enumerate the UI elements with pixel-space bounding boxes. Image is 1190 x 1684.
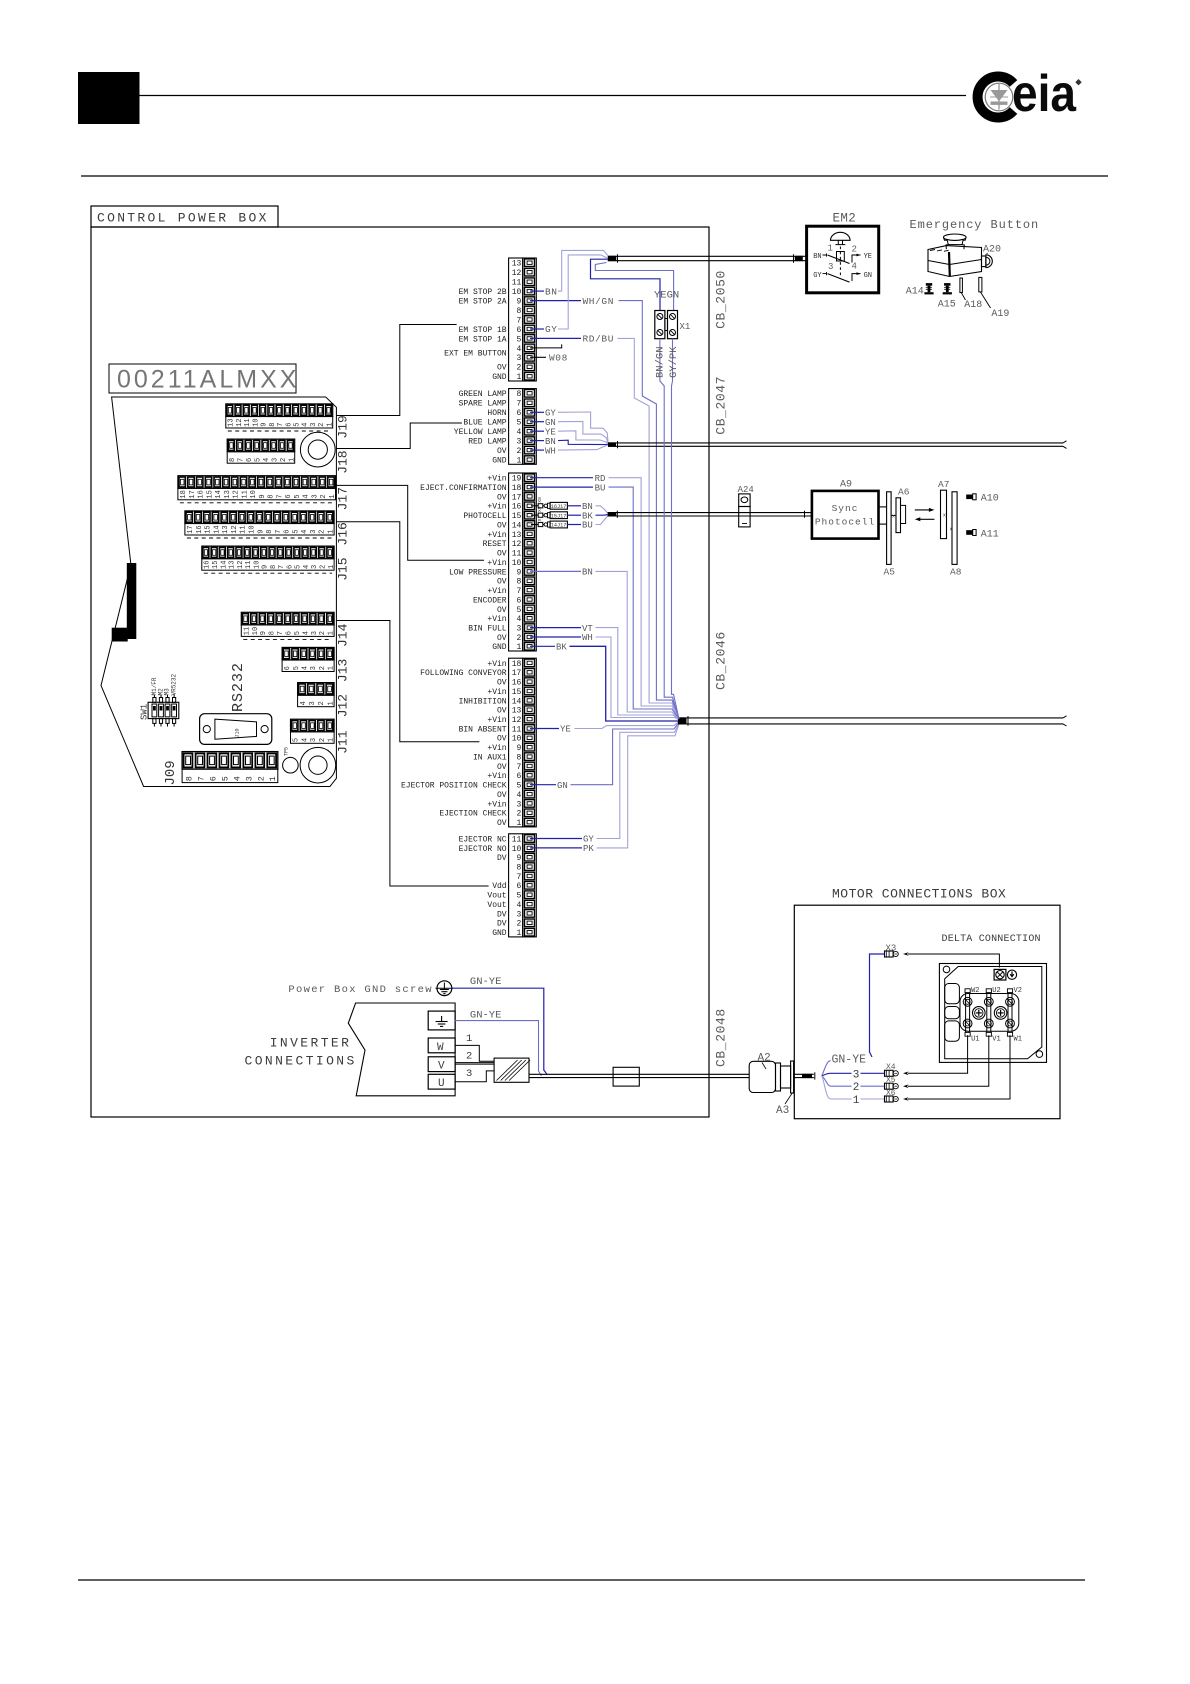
svg-text:1: 1	[268, 776, 278, 781]
svg-text:6: 6	[285, 494, 293, 498]
svg-text:J12: J12	[336, 694, 351, 717]
svg-text:6: 6	[516, 772, 521, 781]
cable end in motor box	[794, 1072, 815, 1079]
svg-text:11: 11	[245, 561, 253, 569]
svg-text:W08: W08	[549, 353, 568, 364]
cable gland A2	[749, 1052, 793, 1093]
svg-text:7: 7	[516, 873, 521, 882]
DIP switch SW1	[140, 695, 179, 727]
svg-text:BU: BU	[582, 521, 593, 531]
svg-text:11: 11	[512, 725, 522, 734]
svg-text:INVERTER: INVERTER	[270, 1036, 352, 1051]
svg-text:CONTROL POWER BOX: CONTROL POWER BOX	[97, 211, 269, 226]
svg-text:10: 10	[249, 525, 257, 533]
wire GN-YE from inverter GND terminal	[455, 1010, 541, 1076]
svg-text:2: 2	[516, 364, 521, 373]
svg-text:WH/GN: WH/GN	[583, 296, 615, 307]
connector J17	[178, 476, 351, 511]
wire GN-YE to X3	[870, 954, 885, 1057]
svg-text:16: 16	[204, 561, 212, 569]
svg-text:2: 2	[318, 423, 326, 427]
svg-text:MOTOR CONNECTIONS BOX: MOTOR CONNECTIONS BOX	[832, 887, 1006, 902]
svg-text:V2: V2	[1014, 987, 1022, 995]
ferrite bead on motor cable	[613, 1067, 639, 1086]
svg-text:DV: DV	[497, 854, 507, 863]
svg-text:W2: W2	[971, 987, 979, 995]
svg-text:J09: J09	[163, 760, 179, 785]
card edge connector	[112, 563, 137, 642]
svg-text:OV: OV	[497, 447, 507, 456]
terminal X3	[885, 943, 899, 957]
alignment arrows	[915, 508, 935, 521]
svg-text:12: 12	[512, 269, 522, 278]
svg-text:GND: GND	[492, 373, 507, 382]
svg-text:6: 6	[285, 423, 293, 427]
svg-text:17: 17	[187, 525, 195, 533]
svg-text:11: 11	[244, 418, 252, 426]
connector J15	[202, 546, 351, 581]
svg-text:J17: J17	[336, 487, 351, 510]
strip X17 (inputs) labels	[420, 475, 507, 653]
wire fan GN-YE 3 2 1	[822, 1054, 885, 1108]
svg-text:6: 6	[516, 409, 521, 418]
svg-text:A6: A6	[898, 487, 910, 498]
svg-text:13: 13	[512, 260, 522, 269]
svg-text:2: 2	[280, 458, 288, 462]
svg-text:J15: J15	[336, 557, 351, 580]
svg-text:10: 10	[252, 627, 260, 635]
svg-text:5: 5	[292, 530, 300, 534]
svg-text:A10: A10	[981, 494, 999, 505]
svg-text:4: 4	[263, 458, 271, 462]
svg-text:X9: X9	[537, 506, 543, 512]
svg-text:EJECTION CHECK: EJECTION CHECK	[439, 810, 506, 819]
svg-text:4: 4	[852, 262, 857, 272]
svg-text:4: 4	[516, 615, 521, 624]
svg-text:GREEN LAMP: GREEN LAMP	[459, 390, 507, 399]
wire BK photocell pin15	[567, 511, 607, 521]
svg-text:3: 3	[311, 565, 319, 569]
svg-text:GND: GND	[492, 457, 507, 466]
svg-text:14: 14	[512, 521, 522, 530]
svg-text:A5: A5	[884, 567, 896, 578]
svg-text:WH: WH	[545, 446, 556, 456]
svg-text:2: 2	[319, 530, 327, 534]
connector J18	[227, 439, 350, 474]
svg-text:SW1: SW1	[140, 704, 150, 720]
delta terminal plate	[939, 964, 1046, 1063]
svg-text:7: 7	[277, 631, 285, 635]
svg-text:3: 3	[516, 800, 521, 809]
wire PK pin10 (ejector NO)	[530, 722, 680, 854]
svg-text:YELLOW LAMP: YELLOW LAMP	[454, 428, 507, 437]
wire GY pin6	[530, 255, 608, 335]
svg-text:18: 18	[512, 484, 522, 493]
emergency button assembly	[910, 218, 1040, 276]
svg-text:8: 8	[269, 631, 277, 635]
svg-text:TP5: TP5	[284, 747, 290, 756]
svg-text:3: 3	[311, 631, 319, 635]
svg-text:4: 4	[302, 666, 310, 670]
wire BN pin10	[530, 250, 608, 297]
svg-text:EXT EM BUTTON: EXT EM BUTTON	[444, 350, 507, 359]
svg-text:15J17: 15J17	[551, 513, 567, 519]
svg-text:Power Box GND screw: Power Box GND screw	[288, 984, 432, 996]
svg-text:EJECT.CONFIRMATION: EJECT.CONFIRMATION	[420, 484, 507, 493]
svg-text:5: 5	[220, 776, 230, 781]
control power box label	[91, 206, 278, 227]
svg-text:11: 11	[512, 550, 522, 559]
svg-text:Vdd: Vdd	[492, 882, 507, 891]
connector X1	[655, 311, 691, 339]
connector J11	[291, 719, 351, 754]
svg-text:3: 3	[466, 1068, 472, 1080]
svg-text:BK: BK	[556, 643, 567, 653]
inverter terminal V	[428, 1051, 494, 1073]
svg-text:Sync: Sync	[832, 503, 859, 514]
svg-text:Emergency Button: Emergency Button	[910, 218, 1040, 232]
svg-text:W: W	[437, 1042, 444, 1054]
svg-text:1: 1	[516, 819, 521, 828]
svg-text:8: 8	[516, 864, 521, 873]
wire WH/GN pin9	[530, 296, 679, 720]
wire W08 pin3	[530, 353, 568, 364]
svg-text:GN: GN	[545, 418, 556, 428]
svg-text:7: 7	[196, 776, 206, 781]
svg-text:6: 6	[516, 596, 521, 605]
svg-text:5: 5	[294, 423, 302, 427]
svg-text:6: 6	[286, 565, 294, 569]
svg-text:EM STOP 1B: EM STOP 1B	[459, 326, 507, 335]
wire GN lamp pin5	[530, 418, 608, 445]
svg-text:5: 5	[293, 738, 301, 742]
earth screw on plate	[994, 969, 1006, 980]
svg-text:17: 17	[512, 669, 522, 678]
svg-text:10: 10	[250, 490, 258, 498]
svg-text:14: 14	[213, 525, 221, 533]
svg-text:GN: GN	[864, 272, 872, 280]
svg-text:2: 2	[852, 245, 857, 255]
terminal X6	[885, 1089, 899, 1102]
cable wrap ferrite	[494, 1058, 530, 1082]
terminal strip X14 (ejector)	[509, 834, 537, 938]
svg-text:9: 9	[261, 423, 269, 427]
wire BU photocell pin14	[567, 516, 607, 531]
reflector A7	[938, 479, 953, 539]
PCB board outline	[101, 397, 336, 787]
svg-text:W1: W1	[1014, 1035, 1022, 1043]
svg-text:OV: OV	[497, 493, 507, 502]
svg-text:12: 12	[512, 540, 522, 549]
label A20	[983, 245, 1001, 257]
strip X14 (ejector) labels	[459, 835, 507, 938]
svg-text:12: 12	[231, 525, 239, 533]
wire GY pin11 (ejector NC)	[530, 722, 680, 845]
svg-text:YEGN: YEGN	[654, 290, 679, 302]
wire J16 to strip4	[336, 522, 479, 742]
svg-text:X8: X8	[537, 497, 543, 503]
svg-text:RESET: RESET	[483, 540, 507, 549]
connector J14	[241, 612, 350, 647]
svg-text:+Vin: +Vin	[487, 744, 506, 753]
svg-text:5: 5	[516, 782, 521, 791]
svg-text:OV: OV	[497, 364, 507, 373]
svg-text:10: 10	[512, 288, 522, 297]
svg-text:YE: YE	[864, 253, 872, 261]
svg-text:2: 2	[853, 1082, 860, 1094]
svg-text:EJECTOR POSITION CHECK: EJECTOR POSITION CHECK	[401, 782, 507, 791]
svg-text:PHOTOCELL: PHOTOCELL	[463, 512, 506, 521]
svg-text:15: 15	[212, 561, 220, 569]
photocell inline connectors X8 X9 X7	[531, 497, 567, 529]
svg-text:OV: OV	[497, 707, 507, 716]
svg-text:2: 2	[319, 666, 327, 670]
svg-text:J18: J18	[336, 450, 351, 473]
cable CB_2047 to lamps	[608, 441, 1067, 449]
svg-text:EM2: EM2	[833, 212, 857, 226]
svg-text:5: 5	[516, 335, 521, 344]
svg-text:OV: OV	[497, 521, 507, 530]
wire WH lamp pin2	[530, 445, 608, 456]
svg-text:5: 5	[294, 631, 302, 635]
header rule	[140, 95, 967, 97]
svg-text:6: 6	[286, 631, 294, 635]
svg-text:OV: OV	[497, 606, 507, 615]
svg-text:EM STOP 2B: EM STOP 2B	[459, 288, 507, 297]
svg-text:2: 2	[256, 776, 266, 781]
svg-text:DV: DV	[497, 920, 507, 929]
svg-text:11: 11	[512, 279, 522, 288]
screw A10	[966, 494, 999, 505]
svg-text:RD/BU: RD/BU	[583, 334, 615, 345]
svg-text:7: 7	[516, 316, 521, 325]
svg-text:9: 9	[259, 494, 267, 498]
svg-text:15: 15	[512, 688, 522, 697]
wire GN pin5 (ejector position check)	[530, 722, 680, 791]
svg-text:J19: J19	[336, 415, 351, 438]
svg-text:8: 8	[516, 578, 521, 587]
svg-text:BN: BN	[545, 437, 556, 447]
board label 00211ALMXX	[109, 364, 296, 393]
wire J18 to lamp strip	[336, 423, 462, 449]
screw A14	[906, 283, 934, 297]
svg-text:4: 4	[232, 776, 242, 781]
wire YE to X1	[591, 259, 661, 310]
svg-text:GN: GN	[557, 781, 568, 791]
connector J12	[298, 683, 351, 718]
svg-text:BIN ABSENT: BIN ABSENT	[459, 725, 507, 734]
strip X16 (inputs2) labels	[401, 660, 507, 828]
svg-text:V: V	[438, 1061, 445, 1073]
wire X3 to earth screw	[903, 952, 999, 967]
svg-text:1: 1	[328, 631, 336, 635]
wire J14 to strip5	[336, 621, 488, 887]
svg-text:GN-YE: GN-YE	[470, 976, 502, 988]
inverter terminal W	[428, 1033, 494, 1061]
screw A11	[966, 529, 999, 540]
svg-text:9: 9	[260, 631, 268, 635]
svg-text:16: 16	[196, 525, 204, 533]
wire WH pin2	[530, 633, 679, 720]
svg-text:11: 11	[241, 490, 249, 498]
svg-text:5: 5	[516, 892, 521, 901]
svg-text:+Vin: +Vin	[487, 587, 506, 596]
wire GN to X1	[595, 263, 673, 311]
inverter connections bracket	[348, 1003, 455, 1096]
svg-text:3: 3	[516, 910, 521, 919]
svg-text:GY: GY	[545, 324, 558, 335]
bracket A5	[884, 492, 896, 578]
connector J13	[282, 647, 350, 682]
svg-text:eia: eia	[1012, 65, 1077, 123]
connector J16	[185, 511, 351, 546]
svg-text:YE: YE	[560, 725, 571, 735]
svg-text:2: 2	[319, 738, 327, 742]
svg-text:INHIBITION: INHIBITION	[459, 697, 507, 706]
svg-text:+Vin: +Vin	[487, 660, 506, 669]
svg-text:VR5232: VR5232	[170, 673, 177, 695]
svg-text:7: 7	[277, 423, 285, 427]
svg-text:OV: OV	[497, 819, 507, 828]
svg-text:1: 1	[327, 701, 335, 705]
label A3	[776, 1093, 793, 1118]
svg-text:FOLLOWING CONVEYOR: FOLLOWING CONVEYOR	[420, 669, 507, 678]
svg-text:4: 4	[516, 901, 521, 910]
svg-text:1: 1	[326, 423, 334, 427]
svg-text:CB_2048: CB_2048	[714, 1008, 729, 1067]
svg-text:14: 14	[512, 697, 522, 706]
svg-text:8: 8	[516, 390, 521, 399]
svg-text:BN: BN	[545, 286, 558, 297]
svg-text:BN: BN	[582, 568, 593, 578]
wire GN-YE from GND screw	[452, 976, 547, 1074]
svg-text:GY: GY	[813, 272, 822, 280]
svg-text:A7: A7	[938, 479, 949, 490]
svg-text:X1: X1	[680, 322, 691, 332]
wire BN photocell pin16	[567, 502, 607, 513]
svg-text:3: 3	[828, 262, 833, 272]
svg-text:9: 9	[257, 530, 265, 534]
svg-text:3: 3	[310, 530, 318, 534]
pin A19	[979, 277, 1010, 320]
svg-text:1: 1	[516, 373, 521, 382]
svg-text:A2: A2	[758, 1052, 771, 1064]
svg-text:V1: V1	[992, 1035, 1000, 1043]
svg-text:3: 3	[516, 625, 521, 634]
svg-text:+Vin: +Vin	[487, 531, 506, 540]
svg-text:3: 3	[853, 1069, 860, 1081]
wire X5 from V1	[903, 1035, 989, 1088]
svg-text:3: 3	[310, 666, 318, 670]
terminal strip X19 (emergency)	[509, 258, 537, 382]
svg-text:14: 14	[215, 490, 223, 498]
wire BN pin9 (low pressure)	[530, 568, 679, 720]
svg-text:GN-YE: GN-YE	[470, 1010, 502, 1022]
svg-text:5: 5	[516, 419, 521, 428]
terminal X5	[885, 1076, 899, 1089]
svg-text:4: 4	[302, 423, 310, 427]
svg-text:15: 15	[206, 490, 214, 498]
svg-text:2: 2	[516, 920, 521, 929]
mounting hole (bottom)	[300, 747, 336, 783]
svg-text:8: 8	[516, 307, 521, 316]
svg-text:15: 15	[512, 512, 522, 521]
svg-text:12: 12	[512, 716, 522, 725]
svg-text:8: 8	[229, 458, 237, 462]
svg-text:3: 3	[516, 438, 521, 447]
svg-text:2: 2	[318, 701, 326, 705]
svg-text:WH: WH	[582, 633, 593, 643]
terminal strip X16 (inputs2)	[509, 658, 537, 828]
svg-text:J13: J13	[336, 659, 351, 682]
separator rule	[81, 175, 1108, 177]
svg-text:16J17: 16J17	[551, 504, 567, 510]
wire GY lamp pin6	[530, 409, 608, 445]
svg-text:LOW PRESSURE: LOW PRESSURE	[449, 568, 507, 577]
svg-text:4: 4	[301, 530, 309, 534]
svg-text:11: 11	[512, 835, 522, 844]
connector J09	[163, 752, 278, 786]
svg-text:2: 2	[320, 494, 328, 498]
svg-text:18: 18	[512, 660, 522, 669]
svg-text:1: 1	[328, 530, 336, 534]
svg-text:7: 7	[516, 587, 521, 596]
svg-text:13: 13	[512, 531, 522, 540]
svg-text:EM STOP 2A: EM STOP 2A	[459, 298, 507, 307]
wire YE pin11 (bin absent)	[530, 721, 680, 735]
svg-text:A11: A11	[981, 529, 999, 540]
strip X18 (lamps) labels	[454, 390, 507, 465]
svg-text:+Vin: +Vin	[487, 559, 506, 568]
svg-text:A3: A3	[776, 1105, 789, 1117]
svg-text:+Vin: +Vin	[487, 615, 506, 624]
RS232 connector J10	[200, 662, 272, 744]
svg-text:U: U	[438, 1078, 445, 1090]
screw A15	[938, 283, 956, 310]
svg-text:8: 8	[516, 754, 521, 763]
svg-text:J14: J14	[336, 623, 351, 647]
svg-text:OV: OV	[497, 578, 507, 587]
svg-text:5: 5	[295, 565, 303, 569]
svg-text:RS232: RS232	[230, 662, 247, 712]
svg-text:OV: OV	[497, 550, 507, 559]
svg-text:A24: A24	[738, 485, 754, 495]
svg-text:9: 9	[516, 298, 521, 307]
svg-text:+Vin: +Vin	[487, 503, 506, 512]
svg-text:x: x	[943, 513, 946, 519]
svg-text:6: 6	[284, 666, 292, 670]
svg-text:7: 7	[278, 565, 286, 569]
svg-text:11: 11	[243, 627, 251, 635]
svg-text:3: 3	[516, 354, 521, 363]
svg-text:10: 10	[252, 418, 260, 426]
svg-text:9: 9	[262, 565, 270, 569]
svg-text:10: 10	[512, 735, 522, 744]
svg-text:X7: X7	[537, 516, 543, 522]
svg-text:GND: GND	[492, 929, 507, 938]
svg-text:1: 1	[288, 458, 296, 462]
svg-text:7: 7	[238, 458, 246, 462]
svg-text:7: 7	[516, 400, 521, 409]
svg-text:BU: BU	[595, 483, 606, 493]
svg-text:7: 7	[276, 494, 284, 498]
svg-text:17: 17	[189, 490, 197, 498]
inverter GND terminal	[428, 1011, 455, 1030]
svg-text:A18: A18	[964, 300, 982, 311]
bracket A6	[891, 487, 910, 533]
svg-text:4: 4	[303, 565, 311, 569]
svg-text:OV: OV	[497, 763, 507, 772]
